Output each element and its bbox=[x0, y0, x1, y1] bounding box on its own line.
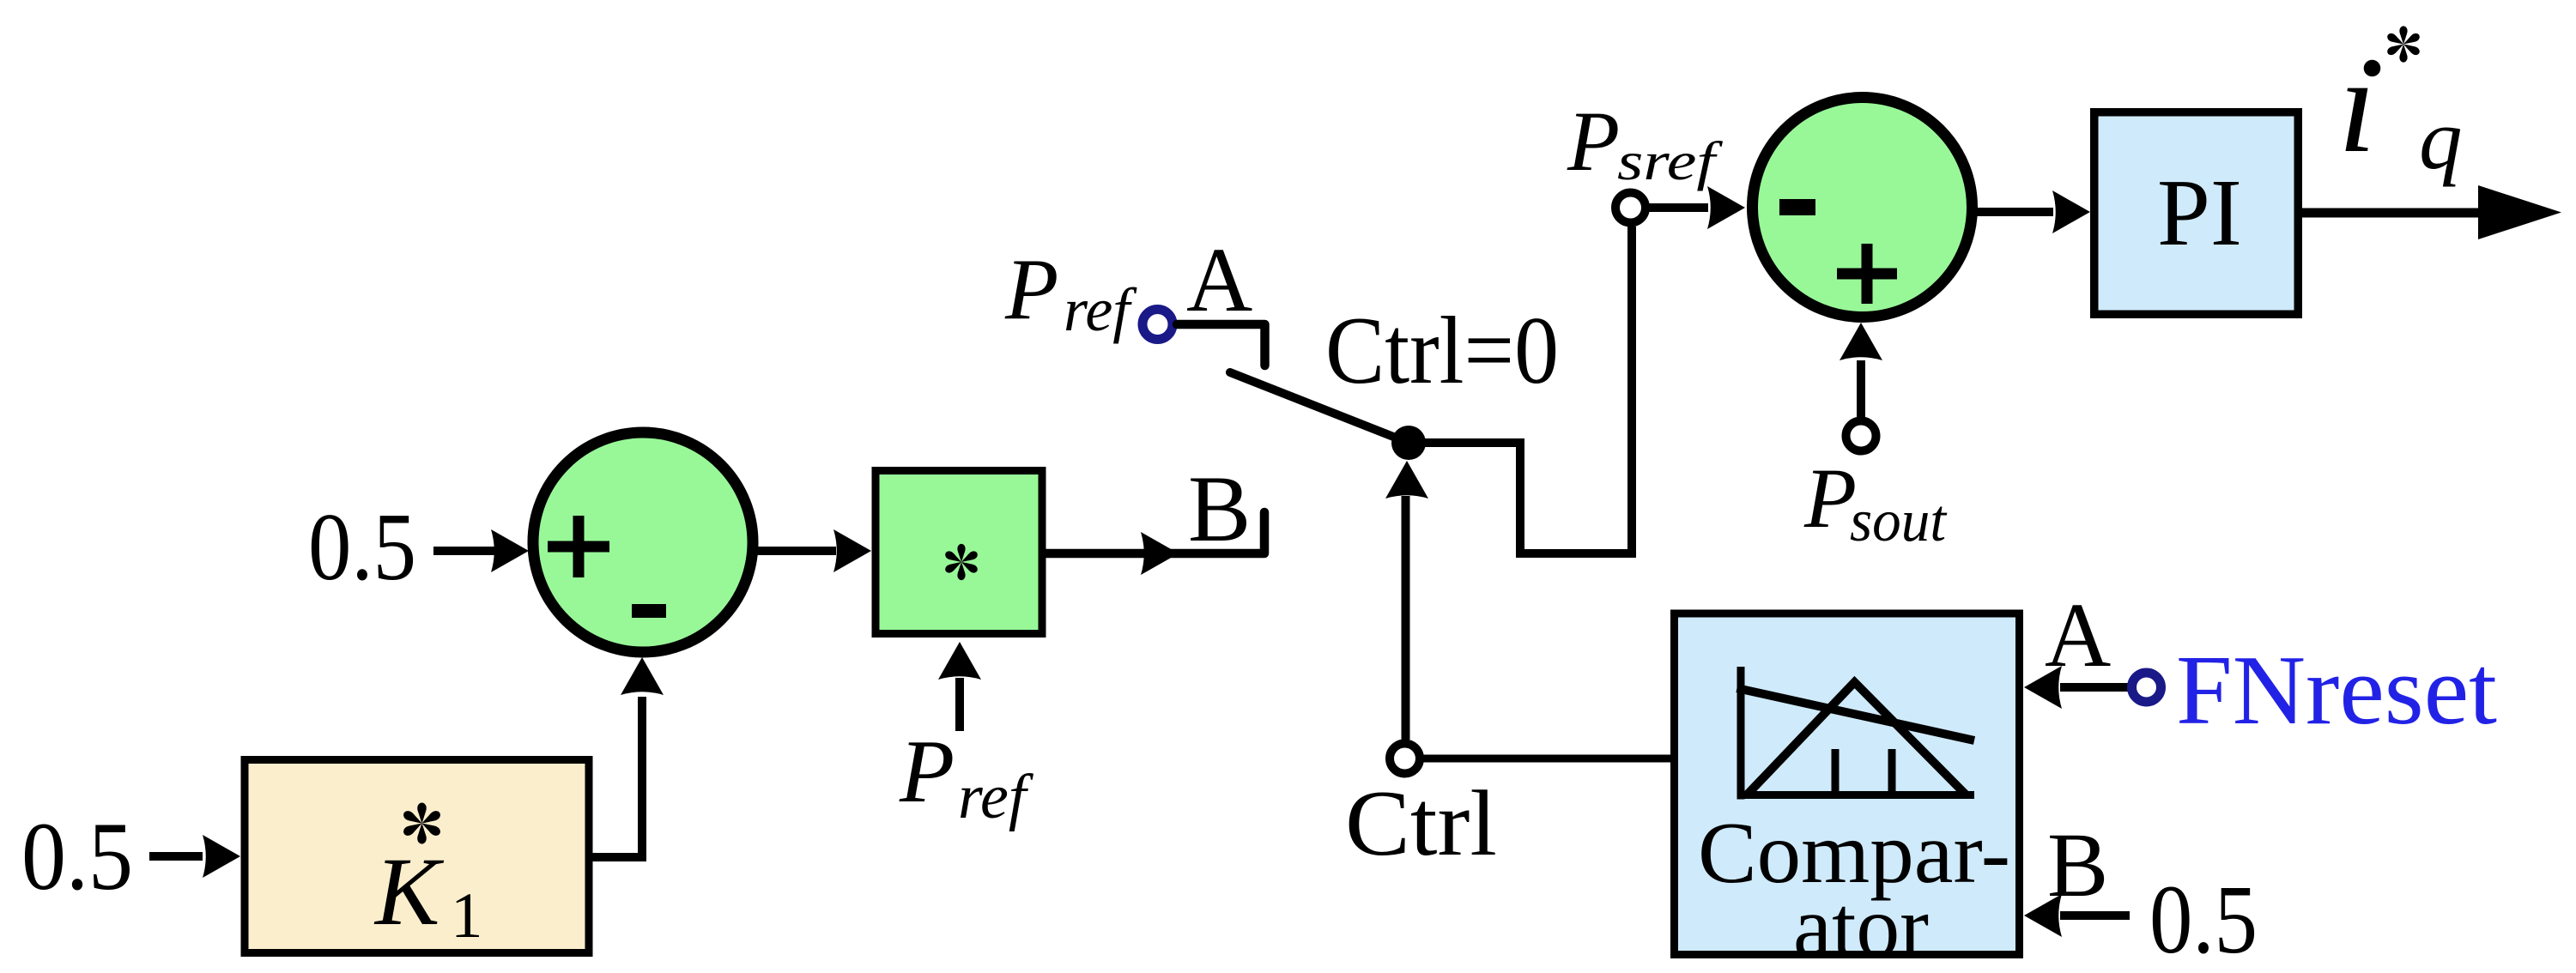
Ctrl control arrow into junction bbox=[1385, 461, 1428, 740]
svg-text:P: P bbox=[1567, 94, 1620, 189]
switch junction dot bbox=[1391, 426, 1426, 460]
asterisk in M1 bbox=[943, 544, 979, 580]
label P_sref bbox=[1567, 94, 1724, 191]
switch arm bbox=[1230, 372, 1409, 443]
gain block K1 bbox=[245, 760, 589, 953]
arrowhead into PI bbox=[2052, 190, 2090, 233]
arrowhead on B wire bbox=[1141, 532, 1179, 575]
plus sign in S2 bbox=[1837, 244, 1897, 304]
node P_sout bbox=[1846, 421, 1876, 451]
summing junction S1 bbox=[533, 432, 753, 652]
svg-text:P: P bbox=[1004, 241, 1058, 338]
svg-text:B: B bbox=[2047, 815, 2108, 916]
node FNreset (navy input terminal) bbox=[2132, 673, 2161, 702]
wire P_sref node to summing junction S2 bbox=[1649, 203, 1708, 212]
node P_sref bbox=[1615, 193, 1646, 223]
P_sout input arrow into S2 bbox=[1840, 323, 1882, 418]
comparator icon: descending line bbox=[1737, 688, 1975, 740]
wire 0.5 to summing junction S1 bbox=[433, 547, 494, 555]
summing junction S2 bbox=[1753, 98, 1973, 317]
wire junction to P_sref node (step) bbox=[1409, 227, 1632, 553]
svg-text:A: A bbox=[2045, 585, 2111, 686]
label P_sout bbox=[1803, 450, 1947, 554]
label P_ref under M1 bbox=[899, 721, 1034, 832]
svg-text:0.5: 0.5 bbox=[308, 494, 416, 601]
svg-text:PI: PI bbox=[2157, 160, 2242, 266]
asterisk in K1 bbox=[402, 802, 442, 843]
svg-text:FNreset: FNreset bbox=[2176, 636, 2497, 746]
comparator input B arrowhead bbox=[2024, 894, 2062, 937]
comparator block bbox=[1675, 613, 2020, 955]
output wire from PI bbox=[2302, 208, 2494, 218]
superscript asterisk of i bbox=[2385, 26, 2421, 62]
svg-text:B: B bbox=[1188, 456, 1251, 561]
plus sign in S1 bbox=[548, 516, 609, 577]
svg-text:q: q bbox=[2419, 91, 2463, 187]
svg-text:ref: ref bbox=[958, 762, 1034, 832]
arrowhead into S1 bottom bbox=[621, 657, 664, 695]
wire S1 to multiplier M1 bbox=[752, 547, 836, 555]
comparator icon: tick 1 bbox=[1832, 749, 1840, 795]
svg-text:1: 1 bbox=[451, 880, 483, 952]
minus sign in S1 bbox=[632, 604, 666, 618]
arrowhead into S1 bbox=[491, 529, 529, 572]
wire 0.5 to comparator B bbox=[2060, 911, 2130, 920]
arrowhead into S2 bbox=[1707, 186, 1745, 229]
comparator icon: baseline bbox=[1737, 791, 1975, 799]
multiplier block M1 bbox=[876, 471, 1042, 634]
PI controller block bbox=[2094, 112, 2299, 315]
comparator input A arrowhead bbox=[2024, 666, 2062, 709]
svg-text:0.5: 0.5 bbox=[2149, 865, 2258, 973]
svg-text:ref: ref bbox=[1064, 275, 1137, 344]
minus sign in S2 bbox=[1779, 199, 1815, 215]
svg-text:K: K bbox=[373, 838, 445, 946]
output arrowhead (large) bbox=[2478, 185, 2561, 239]
wire M1 to switch contact B bbox=[1046, 512, 1265, 553]
wire FNreset to comparator A bbox=[2060, 683, 2129, 692]
wire S2 to PI bbox=[1971, 208, 2053, 216]
comparator icon: triangle bbox=[1747, 682, 1967, 795]
switch contact A bracket bbox=[1177, 324, 1265, 366]
svg-text:Ctrl=0: Ctrl=0 bbox=[1325, 298, 1559, 404]
wire K1 to S1 bottom input bbox=[593, 697, 643, 857]
wire Ctrl node to comparator bbox=[1423, 755, 1670, 763]
P_ref input arrow into M1 bbox=[938, 642, 981, 731]
arrowhead into K1 bbox=[203, 835, 240, 878]
svg-text:sref: sref bbox=[1617, 130, 1724, 191]
svg-text:A: A bbox=[1186, 230, 1252, 331]
svg-text:ı: ı bbox=[2338, 28, 2376, 181]
wire 0.5 to K1 bbox=[149, 852, 203, 861]
node Ctrl bbox=[1390, 744, 1420, 774]
svg-text:sout: sout bbox=[1850, 488, 1947, 554]
label P_ref at switch bbox=[1004, 241, 1137, 344]
comparator icon: vertical axis bbox=[1737, 667, 1745, 800]
svg-text:0.5: 0.5 bbox=[21, 803, 133, 910]
comparator icon: tick 2 bbox=[1888, 749, 1896, 795]
svg-text:P: P bbox=[1803, 450, 1857, 546]
svg-text:ator: ator bbox=[1793, 879, 1929, 973]
arrowhead into M1 bbox=[833, 529, 871, 572]
node P_ref A (navy input terminal) bbox=[1143, 310, 1173, 340]
svg-text:P: P bbox=[899, 721, 955, 821]
svg-text:Ctrl: Ctrl bbox=[1345, 771, 1497, 875]
